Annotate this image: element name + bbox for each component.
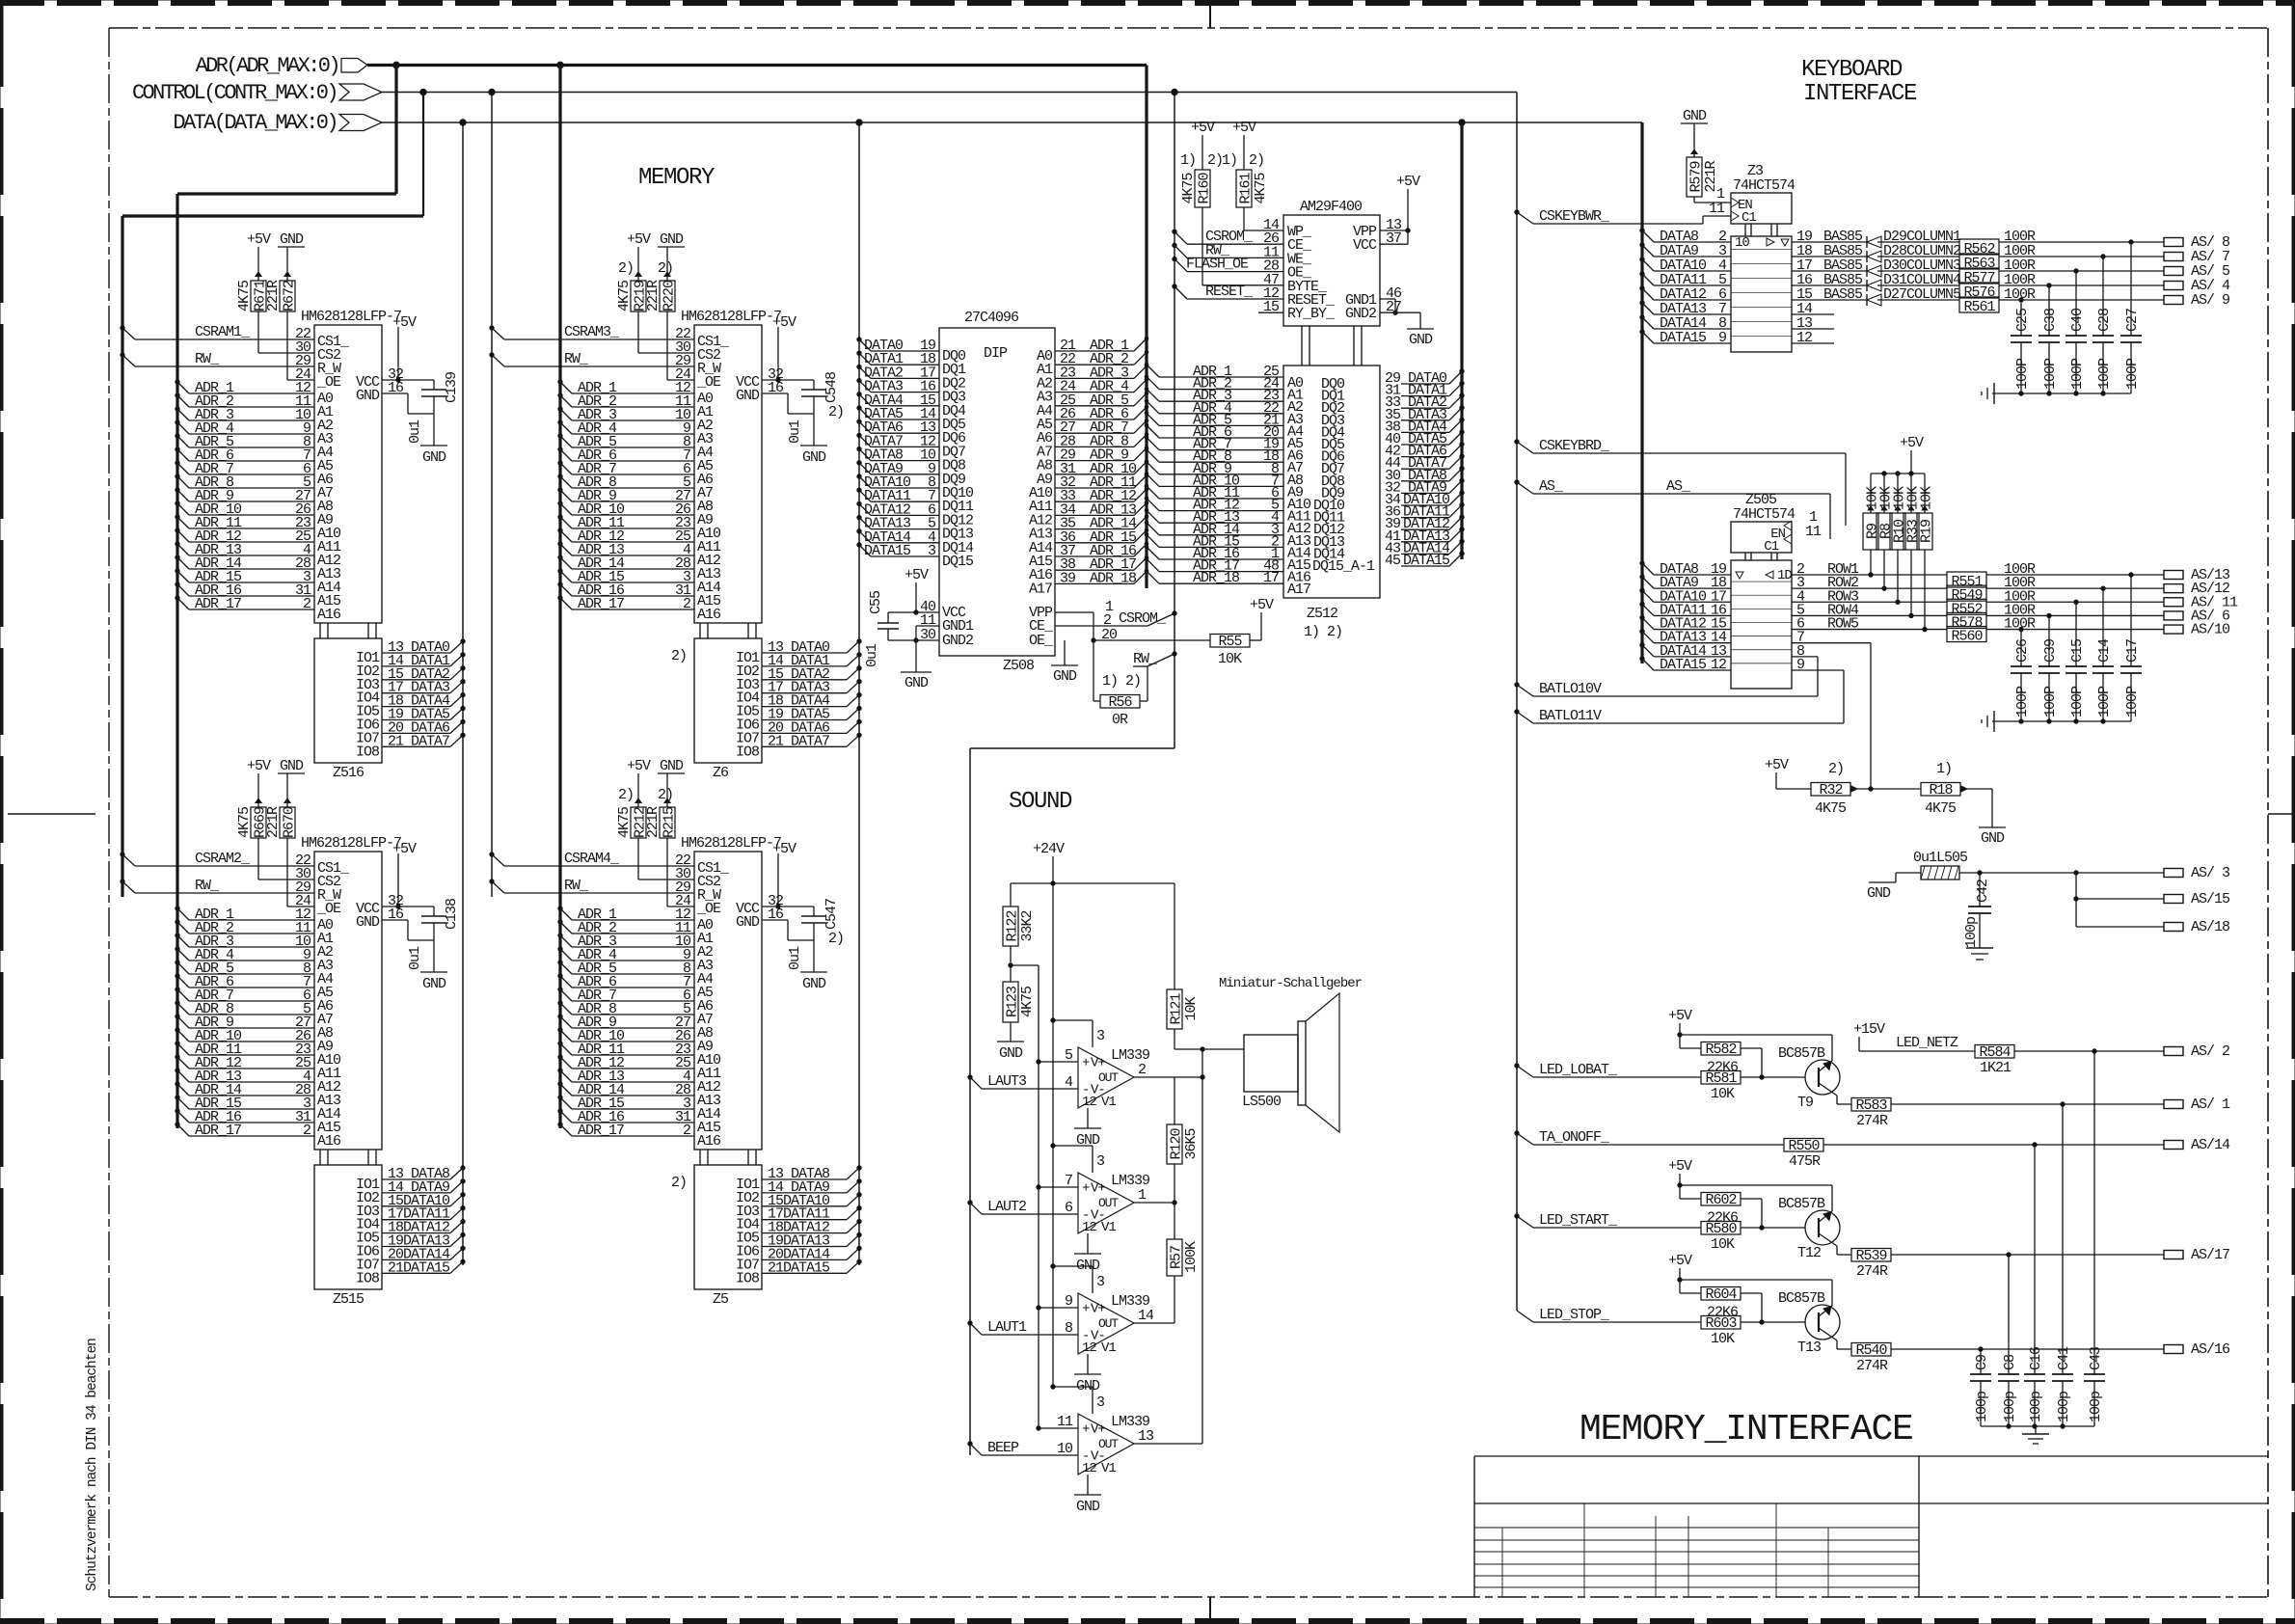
connector AS/ 7 [2164, 249, 2229, 265]
svg-text:DQ15: DQ15 [942, 554, 974, 570]
svg-text:V1: V1 [1101, 1220, 1116, 1235]
note 2) 2) [618, 787, 673, 803]
svg-text:+5V: +5V [627, 758, 651, 774]
wire AS_ [1515, 478, 1830, 539]
wire ROM data taps DATA0..DATA15 [857, 338, 939, 559]
connector AS/ 9 [2164, 292, 2229, 309]
svg-text:27C4096: 27C4096 [964, 310, 1019, 326]
wire LED_STOP_ [1517, 1307, 1701, 1323]
svg-text:21DATA15: 21DATA15 [768, 1259, 830, 1276]
svg-text:100P: 100P [2069, 358, 2086, 390]
svg-text:DATA15: DATA15 [1660, 657, 1707, 673]
wire ROW3 [1792, 588, 1947, 605]
wire flash GND1/GND2 [1380, 299, 1420, 329]
wire BATLO10V [1515, 657, 1818, 697]
wire +24V to V1 [1051, 1018, 1093, 1047]
svg-text:GND: GND [736, 388, 760, 404]
svg-text:4K75: 4K75 [1815, 800, 1847, 817]
svg-text:100p: 100p [1974, 1392, 1990, 1422]
resistor R583 274R [1851, 1097, 2164, 1129]
svg-text:Z516: Z516 [333, 765, 364, 781]
resistor R215 221R [645, 773, 678, 838]
wire LED_START_ [1515, 1212, 1701, 1229]
resistor R123 4K75 [1003, 946, 1036, 1042]
resistor R212 4K75 [616, 773, 649, 838]
svg-text:12: 12 [1082, 1340, 1096, 1356]
svg-text:100p: 100p [2056, 1392, 2072, 1422]
note 2) beside cap [828, 404, 844, 420]
svg-text:AS/15: AS/15 [2191, 891, 2230, 907]
svg-text:GND: GND [999, 1045, 1023, 1062]
wire CS2 pull-up [638, 838, 694, 880]
svg-text:4K75: 4K75 [1019, 986, 1036, 1017]
wire CSROM_ to ROM CE_ [1055, 610, 1176, 627]
wire CSRAM3_ [490, 324, 694, 340]
svg-text:_OE: _OE [696, 374, 721, 391]
svg-text:1D: 1D [1777, 568, 1792, 583]
capacitor C547 0u1 [762, 853, 840, 972]
wire +24V to V1 [1051, 1264, 1093, 1293]
svg-text:T9: T9 [1797, 1095, 1813, 1111]
svg-text:+5V: +5V [1232, 120, 1256, 136]
svg-text:2): 2) [1207, 152, 1223, 169]
wire ADR bus vertical ROM/flash [1145, 66, 1147, 589]
connector AS/ 8 [2164, 234, 2230, 251]
resistor R120 36K5 [1167, 1077, 1200, 1203]
power +5V flash VPP/VCC [1380, 174, 1420, 244]
resistor R576 100R [1877, 272, 2164, 301]
wire CSKEYBWR_ [1515, 208, 1731, 225]
ground GND [1867, 882, 1896, 902]
ground GND [278, 758, 305, 774]
svg-text:AS/10: AS/10 [2191, 622, 2230, 638]
svg-text:IO8: IO8 [736, 744, 760, 760]
svg-text:0u1: 0u1 [787, 946, 803, 970]
svg-text:GND: GND [660, 231, 684, 248]
svg-text:C8: C8 [2002, 1354, 2018, 1370]
svg-text:ADR_18: ADR_18 [1090, 570, 1137, 586]
svg-text:AS/16: AS/16 [2191, 1341, 2230, 1358]
ground GND ROM OE pull-down [1051, 640, 1078, 685]
wire DATA8..DATA15 data taps [762, 1166, 861, 1277]
wire ADR_1..ADR_17 taps [175, 907, 314, 1139]
svg-text:C139: C139 [444, 372, 460, 403]
diode D31 BAS85 [1792, 272, 1961, 291]
connector AS/ 1 [2164, 1096, 2230, 1113]
capacitor C25 100P [2011, 298, 2032, 393]
resistor R550 475R [1784, 1138, 2164, 1170]
wire DATA vertical to flash [1459, 120, 1465, 559]
svg-text:R604: R604 [1705, 1286, 1737, 1303]
power +5V [772, 841, 796, 857]
svg-text:2): 2) [828, 931, 844, 947]
ground GND comparator [1074, 1108, 1101, 1149]
svg-text:T13: T13 [1797, 1340, 1822, 1356]
svg-text:221R: 221R [645, 280, 661, 311]
section title MEMORY [638, 165, 715, 191]
note 2) beside Z5 IO block [671, 1175, 687, 1191]
ground GND [1979, 827, 2006, 847]
resistor R540 274R [1851, 1342, 2164, 1374]
ROM Z508 27C4096 [920, 310, 1118, 674]
power +5V [1250, 597, 1274, 613]
svg-text:GND: GND [1867, 885, 1891, 902]
svg-text:221R: 221R [265, 280, 282, 311]
ground GND [658, 231, 685, 248]
svg-text:221R: 221R [645, 806, 661, 838]
power +5V [247, 758, 271, 774]
power +5V [1668, 1158, 1692, 1199]
svg-text:R583: R583 [1855, 1097, 1887, 1114]
transistor T12 BC857B [1680, 1185, 1851, 1261]
svg-text:0u1: 0u1 [407, 420, 423, 444]
svg-text:+: + [1082, 1056, 1090, 1071]
wire V+ input [1037, 1306, 1078, 1310]
svg-text:V1: V1 [1101, 1461, 1116, 1476]
resistor R563 100R [1877, 243, 2164, 272]
svg-text:GND: GND [1053, 668, 1077, 685]
svg-text:Z512: Z512 [1307, 606, 1337, 622]
svg-text:R582: R582 [1705, 1042, 1736, 1058]
margin note Schutzvermerk nach DIN 34 beachten [85, 1339, 100, 1591]
wire LED_LOBAT_ [1515, 1062, 1701, 1078]
resistor R584 1K21 [1975, 1044, 2164, 1076]
svg-text:C25: C25 [2014, 308, 2031, 332]
svg-text:1: 1 [1138, 1187, 1147, 1204]
svg-text:0u1: 0u1 [407, 946, 423, 970]
svg-text:C26: C26 [2014, 638, 2031, 663]
svg-text:3: 3 [1096, 1274, 1105, 1290]
svg-text:GND: GND [1683, 108, 1707, 124]
svg-text:GND: GND [422, 449, 446, 466]
connector AS/ 5 [2164, 263, 2230, 280]
svg-text:C9: C9 [1974, 1355, 1990, 1370]
svg-text:ADR_17: ADR_17 [578, 596, 624, 612]
wire DATA drop to ROM and RAM column 2 [856, 120, 862, 1265]
resistor R670 221R [265, 773, 298, 838]
diode D30 BAS85 [1792, 257, 1961, 277]
connector AS/ 11 [2164, 594, 2238, 610]
svg-text:OUT: OUT [1098, 1316, 1119, 1331]
ground GND [278, 231, 305, 248]
svg-text:1) 2): 1) 2) [1304, 624, 1342, 640]
connector AS/15 [2164, 891, 2230, 907]
svg-text:+5V: +5V [772, 841, 796, 857]
svg-text:KEYBOARD: KEYBOARD [1801, 57, 1903, 83]
svg-text:+5V: +5V [1668, 1008, 1692, 1024]
resistor R579 221R [1681, 108, 1731, 203]
svg-text:RW_: RW_ [195, 878, 220, 894]
svg-text:21 DATA7: 21 DATA7 [768, 733, 829, 749]
svg-text:IO8: IO8 [356, 1270, 380, 1286]
svg-text:74HCT574: 74HCT574 [1733, 506, 1795, 523]
svg-text:OUT: OUT [1098, 1070, 1119, 1085]
svg-text:R19: R19 [1919, 520, 1935, 543]
resistor R121 10K [1167, 883, 1244, 1051]
svg-text:AS_: AS_ [1539, 478, 1564, 495]
resistor R18 4K75 [1871, 761, 1992, 827]
wire ADR_1..ADR_17 taps [175, 380, 314, 612]
svg-text:R123: R123 [1005, 986, 1021, 1017]
resistor R604 22K6 [1680, 1286, 1764, 1324]
svg-text:2): 2) [828, 404, 844, 420]
wire DATA8..DATA15 to Z505 [1640, 561, 1731, 673]
svg-text:Miniatur-Schallgeber: Miniatur-Schallgeber [1219, 976, 1363, 991]
ground GND comparator [1074, 1354, 1101, 1394]
RAM Z516 HM628128LFP-7 [295, 309, 404, 781]
wire comparator outputs [1134, 1077, 1202, 1444]
wire CONTROL drop to RAM column 1 [122, 89, 426, 897]
svg-text:4K75: 4K75 [616, 280, 633, 311]
svg-text:10K: 10K [1711, 1236, 1735, 1253]
title block [1474, 1456, 2268, 1597]
svg-text:100P: 100P [2042, 358, 2059, 390]
svg-text:ADR_18: ADR_18 [1193, 570, 1240, 586]
svg-text:ROW5: ROW5 [1827, 616, 1859, 633]
svg-text:A16: A16 [697, 607, 721, 623]
svg-text:RW_: RW_ [195, 351, 220, 367]
svg-text:2: 2 [1138, 1062, 1146, 1078]
wire DATA8..DATA15 to Z3 [1640, 229, 1731, 346]
wire LED_NETZ +15V [1853, 1021, 1975, 1051]
svg-text:LED_LOBAT_: LED_LOBAT_ [1539, 1062, 1618, 1078]
svg-text:C27: C27 [2124, 309, 2141, 332]
svg-text:R670: R670 [282, 806, 298, 838]
wire +24V supply [1011, 841, 1174, 1387]
capacitor C55 0u1 [864, 567, 939, 667]
svg-text:2): 2) [671, 1175, 687, 1191]
svg-text:OUT: OUT [1098, 1196, 1119, 1210]
bus entry CONTROL(CONTR_MAX:0) [132, 81, 1515, 105]
svg-text:AS/ 1: AS/ 1 [2191, 1096, 2230, 1113]
svg-text:10: 10 [1735, 235, 1749, 251]
power +5V [627, 231, 651, 248]
resistor R160 4K75 [1180, 120, 1223, 207]
svg-text:CSKEYBRD_: CSKEYBRD_ [1539, 438, 1610, 454]
svg-text:4K75: 4K75 [616, 806, 633, 838]
svg-text:3: 3 [1096, 1394, 1105, 1411]
svg-text:C17: C17 [2124, 639, 2141, 663]
svg-text:TA_ONOFF_: TA_ONOFF_ [1539, 1129, 1610, 1146]
capacitor C27 100P [2120, 240, 2142, 393]
svg-text:AS/14: AS/14 [2191, 1137, 2230, 1153]
svg-text:+: + [1082, 1181, 1090, 1197]
svg-text:C38: C38 [2042, 308, 2059, 332]
svg-text:R32: R32 [1819, 782, 1842, 798]
svg-text:100P: 100P [2014, 358, 2031, 390]
wire CSRAM2_ [121, 851, 314, 867]
wire LAUT1 [968, 1319, 1078, 1336]
ground GND [800, 446, 827, 466]
svg-text:100P: 100P [2124, 686, 2141, 717]
connector AS/ 3 [2164, 865, 2230, 881]
svg-text:RW_: RW_ [564, 878, 589, 894]
resistor R56 0R [1093, 651, 1176, 728]
wire CONTROL drop to RAM column 2 [489, 89, 495, 897]
svg-text:GND: GND [802, 976, 826, 992]
RAM Z6 HM628128LFP-7 [675, 309, 784, 781]
svg-text:CSROM_: CSROM_ [1119, 610, 1167, 627]
wire CONTROL vertical to keyboard interface [1515, 93, 1517, 1312]
wire RW_ [490, 878, 694, 894]
ground keyboard caps group 1 [1982, 383, 2131, 404]
svg-text:+5V: +5V [772, 314, 796, 331]
svg-text:R561: R561 [1963, 299, 1995, 315]
capacitor C39 100P [2038, 613, 2060, 721]
svg-text:C1: C1 [1764, 539, 1778, 555]
svg-text:MEMORY: MEMORY [638, 165, 715, 191]
wire ADR_1..ADR_17 taps [558, 380, 694, 612]
svg-text:LAUT1: LAUT1 [987, 1319, 1027, 1336]
bus entry DATA(DATA_MAX:0) [173, 111, 1642, 135]
wire _OE pull-up [287, 311, 314, 380]
svg-text:GND: GND [356, 388, 380, 404]
svg-text:1): 1) [1222, 152, 1237, 169]
svg-text:C1: C1 [1741, 210, 1756, 226]
svg-text:+5V: +5V [1668, 1158, 1692, 1175]
resistor R672 221R [265, 247, 298, 311]
svg-text:SOUND: SOUND [1009, 789, 1072, 815]
diode D29 BAS85 [1792, 229, 1961, 248]
resistor R552 100R [1947, 588, 2164, 617]
svg-text:100p: 100p [2088, 1392, 2104, 1422]
svg-text:LAUT3: LAUT3 [987, 1073, 1027, 1090]
svg-text:12: 12 [1082, 1095, 1096, 1110]
ground GND [658, 758, 685, 774]
svg-text:LED_STOP_: LED_STOP_ [1539, 1307, 1610, 1323]
ground GND [800, 972, 827, 992]
svg-text:+5V: +5V [392, 841, 417, 857]
wire ROW2 [1792, 575, 1947, 591]
capacitor C8 100p [1998, 1354, 2019, 1426]
svg-text:VCC: VCC [1353, 237, 1377, 254]
power +5V row pull-ups [1871, 435, 1925, 475]
svg-text:10K: 10K [1183, 997, 1200, 1021]
bus entry ADR(ADR_MAX:0) [196, 54, 1147, 78]
svg-text:A16: A16 [317, 607, 341, 623]
wire ROM address lines to ADR bus [1055, 337, 1148, 586]
svg-text:100p: 100p [2002, 1392, 2018, 1422]
svg-text:A16: A16 [317, 1133, 341, 1150]
svg-text:HM628128LFP-7: HM628128LFP-7 [681, 835, 781, 852]
capacitor C138 0u1 [382, 853, 460, 972]
resistor R161 4K75 [1222, 120, 1269, 207]
svg-text:2): 2) [671, 648, 687, 664]
svg-text:DATA(DATA_MAX:0): DATA(DATA_MAX:0) [173, 111, 337, 135]
wire CSRAM4_ [490, 851, 694, 867]
capacitor C548 0u1 [762, 327, 840, 446]
svg-text:14: 14 [1138, 1308, 1154, 1324]
wire DATA vertical to keyboard interface [1640, 122, 1643, 663]
svg-text:475R: 475R [1789, 1153, 1821, 1170]
resistor R8 10K [1876, 474, 1895, 590]
resistor R9 10K [1863, 474, 1881, 577]
svg-text:_OE: _OE [696, 901, 721, 917]
speaker LS500 Miniatur-Schallgeber [1219, 976, 1363, 1132]
resistor R55 10K [1093, 612, 1261, 667]
wire RW_ to flash WE_ [1173, 242, 1283, 258]
power +5V [1668, 1008, 1692, 1048]
section title KEYBOARD INTERFACE [1801, 57, 1917, 107]
svg-text:BAS85: BAS85 [1823, 286, 1863, 303]
wire CSROM_ to flash CE_ [1173, 229, 1283, 245]
wire ROW4 [1792, 602, 1947, 618]
svg-text:RESET_: RESET_ [1205, 284, 1254, 300]
capacitor C38 100P [2038, 284, 2060, 393]
svg-text:1): 1) [1180, 152, 1196, 169]
wire CS2 pull-up [258, 838, 314, 880]
svg-text:R581: R581 [1705, 1070, 1737, 1087]
svg-text:V+: V+ [1091, 1056, 1105, 1071]
svg-text:274R: 274R [1856, 1358, 1888, 1374]
svg-text:BC857B: BC857B [1778, 1196, 1825, 1212]
svg-text:100P: 100P [2124, 358, 2141, 390]
resistor R32 4K75 [1765, 757, 1873, 817]
resistor R562 100R [1877, 229, 2164, 257]
svg-text:3: 3 [1096, 1153, 1105, 1170]
svg-text:R215: R215 [661, 806, 678, 838]
svg-text:C40: C40 [2069, 308, 2086, 332]
capacitor C40 100P [2065, 269, 2087, 393]
svg-text:LED_START_: LED_START_ [1539, 1212, 1618, 1229]
power +5V [627, 758, 651, 774]
power +5V [392, 841, 417, 857]
op-amp LM339 comparator 3 [1065, 1274, 1154, 1356]
ground GND [901, 672, 931, 691]
svg-text:BEEP: BEEP [987, 1440, 1019, 1456]
resistor R539 274R [1851, 1248, 2164, 1280]
svg-text:LED_NETZ: LED_NETZ [1896, 1035, 1958, 1051]
svg-text:C15: C15 [2069, 638, 2086, 663]
svg-text:+5V: +5V [904, 567, 929, 583]
power +5V [247, 231, 271, 248]
svg-text:A17: A17 [1287, 582, 1310, 598]
svg-text:100P: 100P [2014, 686, 2031, 717]
flash Z512 address/data block [1263, 326, 1401, 640]
svg-text:AS/17: AS/17 [2191, 1247, 2229, 1263]
wire comparator output bus [1201, 1049, 1204, 1444]
capacitor C16 100p [2024, 1346, 2045, 1426]
resistor R581 10K [1701, 1070, 1805, 1102]
svg-text:V1: V1 [1101, 1340, 1116, 1356]
svg-text:45: 45 [1385, 553, 1401, 569]
svg-text:GND2: GND2 [942, 633, 973, 649]
svg-text:GND: GND [280, 758, 304, 774]
svg-text:10K: 10K [1919, 486, 1935, 510]
svg-text:GND: GND [1409, 332, 1433, 348]
svg-text:RW_: RW_ [564, 351, 589, 367]
resistor R549 100R [1947, 575, 2164, 604]
resistor R33 10K [1903, 474, 1922, 618]
svg-text:+5V: +5V [627, 231, 651, 248]
svg-text:RY_BY_: RY_BY_ [1287, 306, 1336, 322]
svg-text:AS/ 9: AS/ 9 [2191, 292, 2229, 309]
svg-text:Schutzvermerk nach DIN 34 beac: Schutzvermerk nach DIN 34 beachten [85, 1339, 100, 1591]
svg-text:R579: R579 [1688, 161, 1705, 192]
svg-text:R55: R55 [1218, 634, 1242, 650]
resistor R19 10K [1917, 474, 1935, 632]
transistor T13 BC857B [1680, 1280, 1851, 1356]
wire R160 to flash BYTE_ [1202, 207, 1283, 285]
svg-text:C14: C14 [2096, 638, 2113, 663]
latch Z3 74HCT574 [1709, 163, 1813, 352]
resistor R220 221R [645, 247, 678, 311]
svg-text:MEMORY_INTERFACE: MEMORY_INTERFACE [1579, 1409, 1913, 1450]
svg-text:4K75: 4K75 [1253, 173, 1269, 204]
wire V+ input [1037, 1426, 1078, 1430]
svg-text:33K2: 33K2 [1019, 910, 1036, 941]
connector AS/13 [2164, 567, 2230, 583]
